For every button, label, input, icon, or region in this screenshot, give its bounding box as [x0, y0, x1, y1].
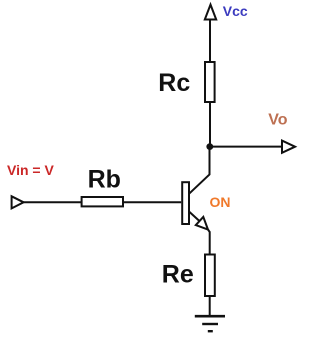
- ground symbol bar 2: [202, 323, 218, 325]
- wire Rb to base: [124, 201, 181, 203]
- node collector junction (dot): [206, 143, 213, 150]
- wire emitter to Re: [208, 230, 210, 254]
- svg-text:ON: ON: [210, 194, 231, 210]
- emitter lead wire (diagonal from bar): [189, 212, 207, 228]
- resistor Rc: [205, 62, 215, 102]
- wire input arrow to Rb: [24, 201, 82, 203]
- ground symbol bar 3: [208, 330, 213, 332]
- ground symbol bar 1: [195, 315, 225, 318]
- Vcc arrow (power terminal, open triangle pointing up): [205, 5, 216, 20]
- wire collector lead (vertical + diagonal into transistor): [189, 147, 210, 194]
- wire collector node to Vo arrow: [210, 146, 282, 148]
- Vo output arrow (open triangle pointing right): [282, 141, 295, 153]
- input arrow (open triangle pointing right): [12, 196, 24, 208]
- resistor Rb: [82, 197, 123, 206]
- emitter arrowhead (open triangle pointing down-right): [196, 217, 208, 230]
- svg-text:Rb: Rb: [88, 166, 121, 194]
- svg-text:Re: Re: [162, 261, 194, 289]
- wire Re to ground: [209, 296, 211, 316]
- resistor Re: [205, 255, 215, 297]
- transistor Q1 base bar: [182, 182, 189, 224]
- wire Rc to collector node: [209, 103, 211, 147]
- wire Vcc to Rc: [209, 20, 211, 62]
- svg-text:Vin = V: Vin = V: [7, 162, 54, 178]
- svg-text:Vo: Vo: [268, 111, 287, 128]
- svg-text:Vcc: Vcc: [223, 3, 248, 19]
- svg-text:Rc: Rc: [158, 69, 190, 97]
